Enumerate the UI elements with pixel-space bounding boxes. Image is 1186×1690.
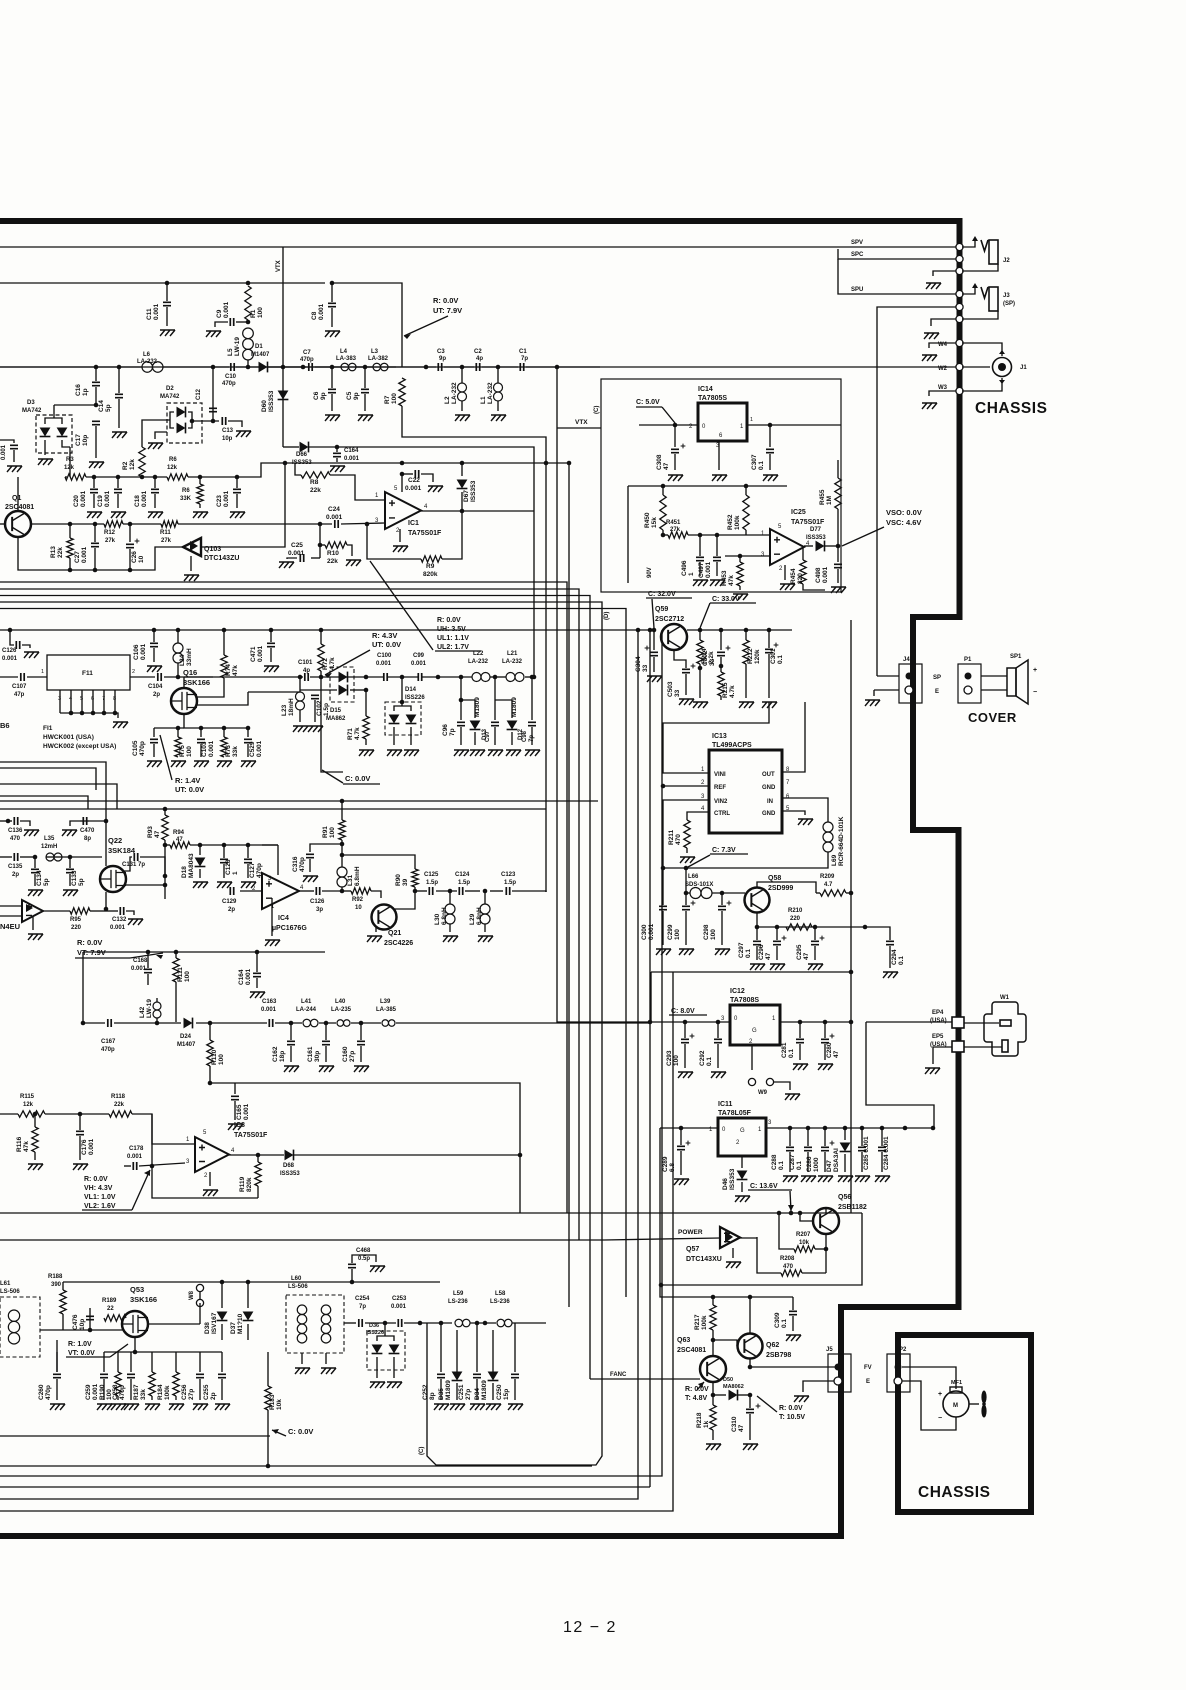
- capacitor C102: [300, 689, 337, 691]
- svg-text:R75: R75: [179, 745, 186, 757]
- diode D38: [221, 1282, 223, 1308]
- diode D67: [461, 463, 463, 476]
- wire F11 pin2 to Q16: [130, 676, 155, 678]
- wire Q58 emitter down: [756, 913, 758, 927]
- svg-text:R212: R212: [747, 648, 754, 664]
- svg-text:90V: 90V: [647, 567, 653, 578]
- svg-text:LA-385: LA-385: [376, 1007, 397, 1013]
- svg-text:0.001: 0.001: [208, 740, 215, 757]
- svg-text:C162: C162: [272, 1046, 279, 1062]
- wire Q1 collector: [17, 477, 19, 511]
- svg-text:0.001: 0.001: [705, 561, 712, 578]
- svg-text:1: 1: [688, 572, 695, 576]
- svg-text:(C): (C): [419, 1447, 425, 1455]
- svg-text:R2: R2: [122, 461, 129, 470]
- wire IC12 input: [651, 1021, 730, 1023]
- svg-text:D50: D50: [723, 1377, 733, 1383]
- ground under C6: [325, 415, 340, 421]
- grounds under D14: [387, 750, 402, 756]
- resistor R8: [295, 463, 301, 475]
- svg-text:0.001: 0.001: [243, 1103, 250, 1120]
- svg-text:C7: C7: [303, 350, 311, 356]
- svg-text:27k: 27k: [105, 538, 116, 544]
- svg-text:2p: 2p: [153, 692, 160, 698]
- capacitor C503 electrolytic: [682, 669, 690, 672]
- wire IC13 pin4: [687, 812, 709, 820]
- svg-text:2p: 2p: [228, 907, 235, 913]
- wire W3: [929, 391, 957, 396]
- capacitor C310 electrolytic: [749, 1395, 751, 1408]
- resistor R217: [712, 1297, 714, 1305]
- svg-text:470p: 470p: [119, 1385, 126, 1400]
- CHASSIS box bottom right thick border: [898, 1335, 1031, 1512]
- svg-text:C476: C476: [72, 1314, 79, 1330]
- diode D15 pair: [339, 672, 348, 683]
- svg-text:27p: 27p: [465, 1389, 472, 1400]
- svg-text:C19: C19: [97, 495, 104, 507]
- ground under J2 branch: [926, 283, 941, 289]
- inductor L5: [246, 320, 251, 325]
- svg-text:C260: C260: [38, 1384, 45, 1400]
- wire W2 long horizontal: [0, 366, 957, 368]
- wire POWER to Q57: [604, 1238, 720, 1240]
- jack J2 plug symbol: [962, 241, 975, 247]
- wire FANC: [590, 1378, 700, 1380]
- diode D34: [492, 1340, 494, 1372]
- resistor R12: [104, 521, 123, 527]
- svg-text:0.001: 0.001: [153, 303, 160, 320]
- svg-text:R72: R72: [322, 658, 329, 670]
- svg-text:C168: C168: [133, 958, 148, 964]
- wire Q21 collector to R90: [394, 891, 415, 909]
- capacitor C100: [384, 673, 387, 681]
- wire y1083 to x520: [210, 1083, 520, 1213]
- svg-text:33K: 33K: [180, 496, 192, 502]
- inductor L69: [823, 822, 833, 832]
- ground under C316: [303, 876, 318, 882]
- svg-text:C161: C161: [307, 1046, 314, 1062]
- regulator IC12 box: [730, 1005, 780, 1045]
- resistor R7: [399, 378, 405, 406]
- svg-text:IC8: IC8: [234, 1122, 245, 1129]
- svg-text:VL2: 1.6V: VL2: 1.6V: [84, 1203, 116, 1210]
- capacitor C285: [861, 1128, 863, 1146]
- capacitor C292: [717, 1022, 719, 1038]
- svg-text:FV: FV: [864, 1365, 872, 1371]
- capacitor C123: [506, 887, 509, 895]
- svg-text:C12: C12: [196, 388, 202, 400]
- resistor R116: [33, 1112, 38, 1117]
- ground under C308: [668, 475, 683, 481]
- capacitor C251: [476, 1340, 478, 1372]
- resistor R119: [257, 1155, 259, 1162]
- svg-text:D2: D2: [166, 386, 174, 392]
- svg-text:UT: 7.9V: UT: 7.9V: [433, 306, 462, 315]
- svg-text:C251: C251: [458, 1384, 465, 1400]
- svg-text:W3: W3: [938, 385, 948, 391]
- capacitor C97: [494, 677, 496, 720]
- svg-text:FI1: FI1: [43, 725, 53, 732]
- svg-text:D34: D34: [474, 1388, 481, 1400]
- capacitor C284: [881, 1128, 883, 1146]
- junction dots y677 row: [364, 675, 369, 680]
- svg-text:LA-232: LA-232: [451, 382, 458, 404]
- wire SPU: [838, 259, 957, 294]
- svg-text:C253: C253: [392, 1296, 407, 1302]
- capacitor C134: [33, 855, 38, 860]
- svg-text:0.001: 0.001: [88, 1138, 95, 1155]
- capacitor C133: [68, 855, 73, 860]
- svg-text:C529: C529: [249, 741, 256, 757]
- ground under C98: [525, 750, 540, 756]
- svg-text:GND: GND: [762, 785, 776, 791]
- svg-text:J4: J4: [903, 657, 910, 663]
- capacitor C165: [234, 1083, 236, 1094]
- wire bus C-line 5: [0, 609, 626, 1298]
- svg-text:C164: C164: [344, 448, 359, 454]
- svg-text:MA8043: MA8043: [188, 853, 195, 878]
- svg-text:F11: F11: [82, 670, 93, 677]
- wire D2 to C13: [192, 420, 219, 422]
- svg-text:C289: C289: [662, 1156, 669, 1172]
- ground under C14: [112, 432, 127, 438]
- svg-text:390: 390: [51, 1282, 62, 1288]
- op-amp IC4: [262, 873, 299, 909]
- ground under C134: [28, 890, 43, 896]
- wire row y1023: [83, 1022, 105, 1024]
- ground W3: [922, 403, 937, 409]
- svg-text:47: 47: [663, 462, 670, 470]
- svg-text:R450: R450: [644, 512, 651, 528]
- svg-text:9p: 9p: [320, 392, 327, 400]
- svg-text:18mH: 18mH: [288, 698, 295, 716]
- svg-text:0.001: 0.001: [2, 656, 18, 662]
- ground under D12: [506, 750, 521, 756]
- svg-text:L35: L35: [44, 836, 55, 842]
- svg-text:(USA): (USA): [930, 1018, 947, 1024]
- svg-text:22k: 22k: [327, 558, 338, 565]
- diode D3 varactor pair: [53, 405, 55, 415]
- resistor R2: [139, 447, 145, 477]
- svg-text:LS-506: LS-506: [288, 1284, 308, 1290]
- wire bus vertical x534 from D66 line: [533, 451, 535, 677]
- wire bus vertical x673: [0, 972, 673, 1511]
- svg-text:7p: 7p: [521, 356, 528, 362]
- ground under L2: [455, 415, 470, 421]
- svg-text:C9: C9: [216, 309, 223, 318]
- resistor R453: [738, 554, 743, 559]
- capacitor C250: [514, 1340, 516, 1372]
- capacitor C476: [88, 1328, 93, 1333]
- diode D12: [495, 700, 512, 718]
- svg-text:L30: L30: [434, 913, 441, 925]
- svg-text:C178: C178: [129, 1146, 144, 1152]
- svg-text:0.001: 0.001: [140, 643, 147, 660]
- resistor R111: [174, 950, 179, 955]
- capacitor C10: [211, 365, 216, 370]
- capacitor C8: [330, 281, 335, 286]
- svg-text:R73: R73: [225, 745, 232, 757]
- svg-text:Q1: Q1: [12, 495, 21, 502]
- svg-text:R10: R10: [327, 550, 339, 557]
- svg-text:100: 100: [329, 827, 336, 838]
- svg-text:12k: 12k: [64, 465, 75, 471]
- svg-text:C288: C288: [771, 1154, 778, 1170]
- ground under C176: [73, 1164, 88, 1170]
- svg-text:9p: 9p: [353, 392, 360, 400]
- svg-text:1.5p: 1.5p: [426, 880, 438, 886]
- ground under Q103: [190, 556, 192, 571]
- svg-text:L5: L5: [227, 348, 234, 356]
- svg-text:C: 8.0V: C: 8.0V: [671, 1008, 695, 1015]
- wire J5 pin2 ground: [803, 1381, 834, 1392]
- svg-text:W2: W2: [938, 366, 948, 372]
- diode D2 dashed box: [167, 403, 202, 443]
- ground under D3: [38, 459, 53, 465]
- connector J5: [828, 1354, 851, 1392]
- chassis bottom thick line: [0, 1533, 844, 1539]
- wire Q22 vertical x106 through: [105, 821, 107, 866]
- svg-text:6: 6: [91, 696, 94, 702]
- svg-text:0.1: 0.1: [758, 461, 765, 470]
- wire Q59 collector row y630: [687, 629, 792, 631]
- svg-text:R: 0.0V: R: 0.0V: [779, 1405, 803, 1412]
- svg-text:R187: R187: [133, 1384, 140, 1400]
- wire IC11 output: [766, 1127, 934, 1129]
- svg-text:R218: R218: [696, 1412, 703, 1428]
- ground under W9: [785, 1094, 800, 1100]
- resistor R92: [342, 890, 351, 892]
- capacitor C286 electrolytic: [824, 1128, 826, 1146]
- svg-text:3SK166: 3SK166: [130, 1295, 157, 1304]
- wire Q56 emitter top: [825, 1208, 827, 1213]
- svg-text:C125: C125: [424, 872, 439, 878]
- svg-text:R189: R189: [102, 1298, 117, 1304]
- svg-text:VSO: 0.0V: VSO: 0.0V: [886, 508, 922, 517]
- ground under C17: [89, 462, 104, 468]
- svg-text:R119: R119: [239, 1176, 246, 1192]
- svg-text:L4: L4: [340, 349, 348, 355]
- svg-text:D18: D18: [181, 866, 188, 878]
- resistor R452: [745, 486, 747, 495]
- svg-text:(SP): (SP): [1003, 301, 1015, 307]
- wire output chain y891: [415, 890, 427, 892]
- svg-text:TA7805S: TA7805S: [698, 395, 727, 402]
- diode D50: [713, 1394, 726, 1396]
- svg-text:LA-383: LA-383: [336, 356, 357, 362]
- svg-text:L29: L29: [469, 913, 476, 925]
- svg-text:0.1: 0.1: [788, 1049, 795, 1058]
- capacitor C161: [325, 1023, 327, 1040]
- EP5 connector: [952, 1041, 964, 1052]
- svg-text:1: 1: [232, 871, 239, 875]
- capacitor C164: [335, 445, 340, 450]
- inductor L6: [142, 362, 153, 373]
- svg-text:REF: REF: [714, 785, 726, 791]
- wire SPC: [838, 249, 957, 259]
- svg-text:5: 5: [80, 696, 83, 702]
- svg-text:Q22: Q22: [108, 836, 122, 845]
- svg-text:C167: C167: [101, 1039, 116, 1045]
- svg-text:(C): (C): [594, 406, 600, 414]
- svg-text:SPV: SPV: [851, 240, 863, 246]
- inductor L22: [472, 673, 481, 682]
- svg-text:IC12: IC12: [730, 988, 745, 995]
- svg-text:47k: 47k: [23, 1141, 30, 1152]
- svg-text:VIN2: VIN2: [714, 799, 728, 805]
- wire RF line mid: [268, 366, 306, 368]
- svg-text:6.8nH: 6.8nH: [441, 907, 448, 925]
- svg-text:L21: L21: [507, 651, 518, 657]
- svg-text:P2: P2: [899, 1347, 907, 1353]
- svg-text:CTRL: CTRL: [714, 811, 730, 817]
- svg-text:Q21: Q21: [388, 930, 401, 937]
- svg-text:0.001: 0.001: [223, 301, 230, 318]
- inductor L31: [341, 887, 343, 891]
- wire Q16 drain: [183, 677, 185, 688]
- svg-text:0.001: 0.001: [411, 661, 427, 667]
- jumper W9: [748, 1078, 755, 1085]
- svg-text:12k: 12k: [23, 1102, 34, 1108]
- resistor R110: [208, 1021, 213, 1026]
- svg-text:33k: 33k: [232, 746, 239, 757]
- ground IC14 pin3: [718, 441, 720, 470]
- svg-text:J1: J1: [1020, 365, 1027, 371]
- svg-text:C295: C295: [796, 944, 803, 960]
- svg-text:C301: C301: [770, 648, 777, 664]
- wire bus vertical x650: [649, 630, 651, 1487]
- svg-text:C23: C23: [216, 495, 223, 507]
- resistor R455: [837, 460, 839, 478]
- inductor L29: [483, 889, 488, 894]
- speaker SP1: [981, 675, 1007, 677]
- svg-text:R118: R118: [111, 1094, 126, 1100]
- svg-text:7p: 7p: [359, 1304, 366, 1310]
- svg-text:C470: C470: [80, 828, 95, 834]
- svg-text:C285 0.001: C285 0.001: [863, 1136, 870, 1170]
- svg-text:0.001: 0.001: [344, 456, 360, 462]
- op-amp IC8: [195, 1137, 229, 1172]
- svg-text:TA75S01F: TA75S01F: [791, 519, 825, 526]
- svg-text:33: 33: [642, 664, 649, 672]
- wire IC14 output: [747, 424, 841, 426]
- svg-text:7p: 7p: [449, 728, 456, 736]
- wire R72 node down and C 0.0V callout: [321, 677, 343, 772]
- svg-text:J3: J3: [1003, 293, 1010, 299]
- svg-text:100k: 100k: [164, 1385, 171, 1400]
- svg-text:C102: C102: [316, 700, 323, 716]
- resistor R189: [104, 1315, 126, 1321]
- svg-text:W8: W8: [189, 1290, 195, 1300]
- svg-text:C97: C97: [485, 730, 491, 742]
- svg-text:C25: C25: [291, 542, 303, 549]
- wire long vertical from SP connector down right side: [877, 307, 957, 676]
- capacitor C164b: [255, 950, 260, 955]
- svg-text:HWCK002 (except USA): HWCK002 (except USA): [43, 743, 116, 750]
- capacitor C107: [21, 673, 24, 681]
- svg-text:100: 100: [257, 307, 264, 318]
- wire L31 top to R90: [342, 855, 415, 869]
- svg-text:47k: 47k: [728, 575, 735, 586]
- transistor Q21: [372, 905, 397, 930]
- wire IC13 pin3: [663, 800, 709, 868]
- svg-text:TA75S01F: TA75S01F: [408, 530, 442, 537]
- svg-text:R9: R9: [426, 563, 435, 570]
- svg-text:2SC2712: 2SC2712: [655, 616, 684, 623]
- ground under C9: [206, 331, 221, 337]
- resistor R450: [662, 486, 664, 495]
- wire rail y283: [0, 282, 325, 284]
- svg-text:C302: C302: [702, 650, 709, 666]
- wire Q1 base row: [0, 523, 5, 525]
- wire from border to ground under J2: [933, 271, 957, 276]
- svg-text:0.1: 0.1: [706, 1057, 713, 1066]
- svg-text:D46: D46: [722, 1178, 729, 1190]
- svg-text:ISS353: ISS353: [268, 390, 275, 412]
- capacitor C126b: [316, 887, 319, 895]
- svg-text:L1: L1: [480, 396, 487, 404]
- svg-text:C22: C22: [408, 477, 420, 484]
- svg-text:D15: D15: [330, 708, 342, 714]
- ground under L29: [478, 936, 493, 942]
- wire W4: [929, 343, 957, 348]
- capacitor C14: [118, 367, 120, 393]
- diode D3 dashed box: [36, 415, 72, 453]
- svg-text:R: 0.0V: R: 0.0V: [77, 938, 102, 947]
- svg-text:R11: R11: [160, 530, 171, 536]
- svg-text:VINI: VINI: [714, 772, 726, 778]
- wire IC13 pin5 ground: [782, 811, 805, 815]
- svg-text:VH: 4.3V: VH: 4.3V: [84, 1185, 113, 1192]
- capacitor C299 electrolytic: [684, 891, 689, 896]
- svg-text:5p: 5p: [43, 878, 50, 886]
- transistor Q103 digital: [183, 538, 201, 556]
- capacitor C496: [698, 533, 703, 538]
- wire bias row y477: [65, 476, 67, 478]
- svg-text:D38: D38: [204, 1322, 211, 1334]
- ground under C471: [264, 666, 279, 672]
- svg-text:0.1: 0.1: [745, 949, 752, 958]
- inductor L35: [46, 853, 54, 861]
- svg-text:C284 0.001: C284 0.001: [883, 1136, 890, 1170]
- svg-text:TL499ACPS: TL499ACPS: [712, 742, 752, 749]
- wire IC12 rail: [650, 972, 652, 1022]
- junction dots y1213: [777, 1211, 782, 1216]
- svg-text:C176: C176: [81, 1139, 88, 1155]
- ground under Q57: [732, 1248, 734, 1258]
- jumper W8: [196, 1284, 203, 1291]
- svg-text:30p: 30p: [314, 1051, 321, 1062]
- svg-text:ISS353: ISS353: [806, 535, 826, 541]
- svg-text:Q62: Q62: [766, 1342, 779, 1349]
- ground under C11: [160, 330, 175, 336]
- junction dots row477: [92, 475, 97, 480]
- svg-text:W4: W4: [938, 342, 948, 348]
- svg-text:L61: L61: [0, 1281, 11, 1287]
- svg-text:IC1: IC1: [408, 520, 419, 527]
- svg-text:E: E: [935, 689, 939, 695]
- svg-text:0.001: 0.001: [81, 546, 88, 563]
- svg-text:HWCK001 (USA): HWCK001 (USA): [43, 734, 94, 741]
- capacitor C176: [78, 1112, 83, 1117]
- svg-text:M1809: M1809: [511, 697, 518, 717]
- capacitor C260: [56, 1352, 58, 1372]
- wire Q57 output: [740, 1237, 757, 1239]
- svg-text:M1?10: M1?10: [237, 1313, 244, 1334]
- resistor R188: [60, 1290, 66, 1314]
- ground IC25 pin2: [784, 565, 786, 580]
- svg-text:100: 100: [391, 393, 398, 404]
